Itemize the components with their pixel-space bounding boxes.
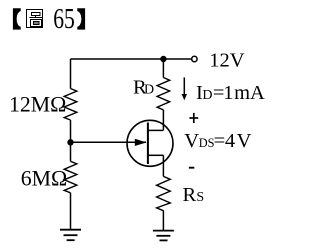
current arrow ID <box>182 77 187 100</box>
wire: left branch middle <box>70 120 72 161</box>
svg-text:S: S <box>196 190 204 205</box>
svg-text:12MΩ: 12MΩ <box>9 92 66 116</box>
title bracket left 【 <box>13 8 21 29</box>
resistor RD <box>157 78 170 110</box>
svg-text:V: V <box>184 130 199 152</box>
resistor 12MΩ <box>64 89 77 121</box>
svg-text:=: = <box>214 130 226 152</box>
ground right <box>153 231 174 241</box>
node: gate junction dot <box>67 139 73 145</box>
wire: left branch upper <box>70 59 72 89</box>
wire: drain branch lower <box>162 110 164 130</box>
title bracket right 】 <box>77 8 85 29</box>
ground left <box>60 230 81 241</box>
wire: left branch lower <box>70 193 72 230</box>
svg-text:R: R <box>183 184 197 206</box>
svg-text:65: 65 <box>53 4 75 35</box>
svg-text:D: D <box>144 83 154 98</box>
svg-text:1: 1 <box>223 82 233 104</box>
svg-text:mA: mA <box>234 82 265 104</box>
svg-text:6MΩ: 6MΩ <box>21 167 67 191</box>
svg-text:12V: 12V <box>209 50 245 72</box>
wire: top rail <box>71 58 192 60</box>
node: drain junction dot <box>160 56 166 62</box>
gate arrow <box>135 139 147 146</box>
title character 圖 <box>27 10 43 28</box>
wire: RS to ground <box>162 211 164 231</box>
terminal 12V open circle <box>192 56 197 61</box>
transistor Q1 (n-JFET) <box>127 120 173 166</box>
resistor 6MΩ <box>64 161 77 193</box>
svg-text:D: D <box>202 88 212 103</box>
wire: gate horizontal <box>71 141 147 143</box>
resistor RS <box>157 176 171 210</box>
minus sign <box>189 167 194 169</box>
plus sign <box>189 113 198 123</box>
svg-text:V: V <box>237 130 252 152</box>
svg-text:DS: DS <box>199 136 215 150</box>
wire: drain branch upper <box>162 59 164 78</box>
svg-text:4: 4 <box>225 130 235 152</box>
wire: source to RS <box>162 155 164 176</box>
